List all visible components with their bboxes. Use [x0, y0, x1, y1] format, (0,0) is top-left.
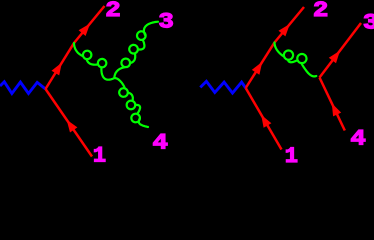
- photon: incoming wavy line (left diagram): [0, 82, 46, 94]
- svg-text:1: 1: [93, 144, 106, 164]
- photon: incoming wavy line (right diagram): [200, 81, 245, 93]
- svg-text:1: 1: [285, 144, 298, 164]
- antiquark leg 4 (right): [320, 78, 345, 131]
- svg-text:2: 2: [313, 0, 329, 23]
- gluon from fermion line to 3-gluon vertex (left): [74, 43, 114, 80]
- fermion segment V2 to gluon vertex (right): [246, 43, 275, 89]
- svg-text:4: 4: [350, 127, 366, 152]
- svg-text:3: 3: [363, 10, 374, 35]
- fermion segment to leg 2 (right): [275, 7, 305, 43]
- arrow on leg 1 (right): [261, 115, 271, 128]
- quark leg 3 (right): [320, 23, 362, 78]
- gluon leg 3 (left): [114, 22, 158, 78]
- arrow on antiquark leg 4 (right): [332, 103, 341, 116]
- arrow on leg 2 segment (left): [79, 24, 91, 37]
- svg-text:4: 4: [153, 130, 169, 155]
- fermion line to leg 1 (right): [246, 88, 282, 150]
- fermion segment V1 to gluon vertex (left): [46, 43, 75, 89]
- gluon propagator to quark pair vertex (right): [275, 43, 317, 77]
- arrow on leg 2 segment (right): [279, 24, 290, 37]
- arrow on segment V2-B2 (right): [252, 62, 262, 75]
- arrow on segment V1-G0 (left): [52, 63, 62, 76]
- svg-text:2: 2: [105, 0, 121, 23]
- svg-text:3: 3: [158, 10, 174, 35]
- fermion segment to leg 2 (left): [74, 6, 105, 43]
- arrow on quark leg 3 (right): [329, 51, 340, 64]
- fermion line to leg 1 (left): [46, 89, 93, 157]
- arrow on leg 1 (left): [67, 120, 78, 133]
- gluon leg 4 (left): [114, 78, 148, 127]
